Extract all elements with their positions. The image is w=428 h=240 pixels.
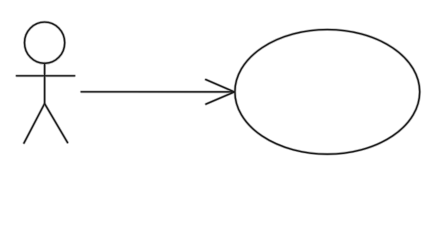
arrowhead upper barb — [206, 80, 235, 92]
actor left leg — [24, 104, 45, 143]
actor arms — [17, 75, 75, 77]
actor (halo pass) — [17, 22, 420, 154]
actor body — [44, 63, 46, 103]
actor head — [24, 22, 64, 63]
actor right leg — [45, 104, 68, 143]
arrowhead lower barb — [206, 92, 234, 104]
use case ellipse — [235, 30, 420, 155]
association arrow shaft — [81, 91, 234, 93]
